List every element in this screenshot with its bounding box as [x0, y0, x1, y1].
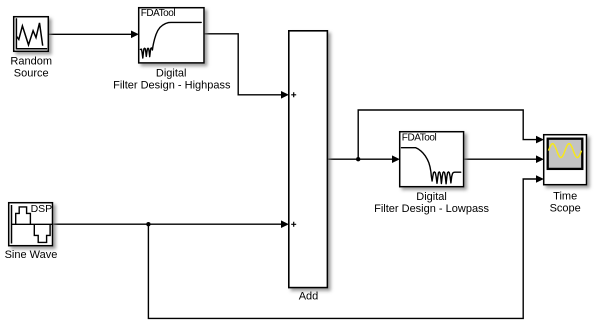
- wire Highpass to Add in1: [204, 34, 282, 95]
- wire Add junction to Scope in1: [358, 110, 536, 159]
- junction add output branch: [356, 157, 360, 161]
- svg-text:Digital: Digital: [156, 67, 187, 79]
- block Sine Wave: [9, 203, 53, 246]
- svg-text:Sine Wave: Sine Wave: [5, 249, 58, 261]
- svg-text:FDATool: FDATool: [402, 133, 437, 144]
- wire Add out to Lowpass: [328, 158, 392, 160]
- svg-text:Digital: Digital: [416, 191, 447, 203]
- block Add: [289, 31, 328, 288]
- junction sine wave branch: [146, 222, 150, 226]
- block Digital Filter Design Lowpass: [400, 132, 464, 187]
- svg-text:Scope: Scope: [550, 203, 581, 215]
- wire Sine junction to Scope in3: [148, 179, 536, 318]
- wire Lowpass to Scope in2: [464, 158, 536, 160]
- svg-text:Filter Design - Lowpass: Filter Design - Lowpass: [374, 203, 489, 215]
- svg-text:Add: Add: [299, 291, 319, 303]
- svg-text:Time: Time: [553, 191, 577, 203]
- wire Sine Wave to Add in2: [53, 223, 281, 225]
- block Time Scope: [544, 135, 587, 185]
- wire Random Source to Highpass: [49, 33, 132, 35]
- svg-text:DSP: DSP: [31, 203, 53, 215]
- svg-text:Filter Design - Highpass: Filter Design - Highpass: [113, 79, 231, 91]
- block Digital Filter Design Highpass: [139, 8, 204, 63]
- svg-text:Random: Random: [10, 55, 52, 67]
- svg-text:Source: Source: [14, 67, 49, 79]
- svg-text:FDATool: FDATool: [141, 8, 176, 19]
- block Random Source: [14, 17, 49, 52]
